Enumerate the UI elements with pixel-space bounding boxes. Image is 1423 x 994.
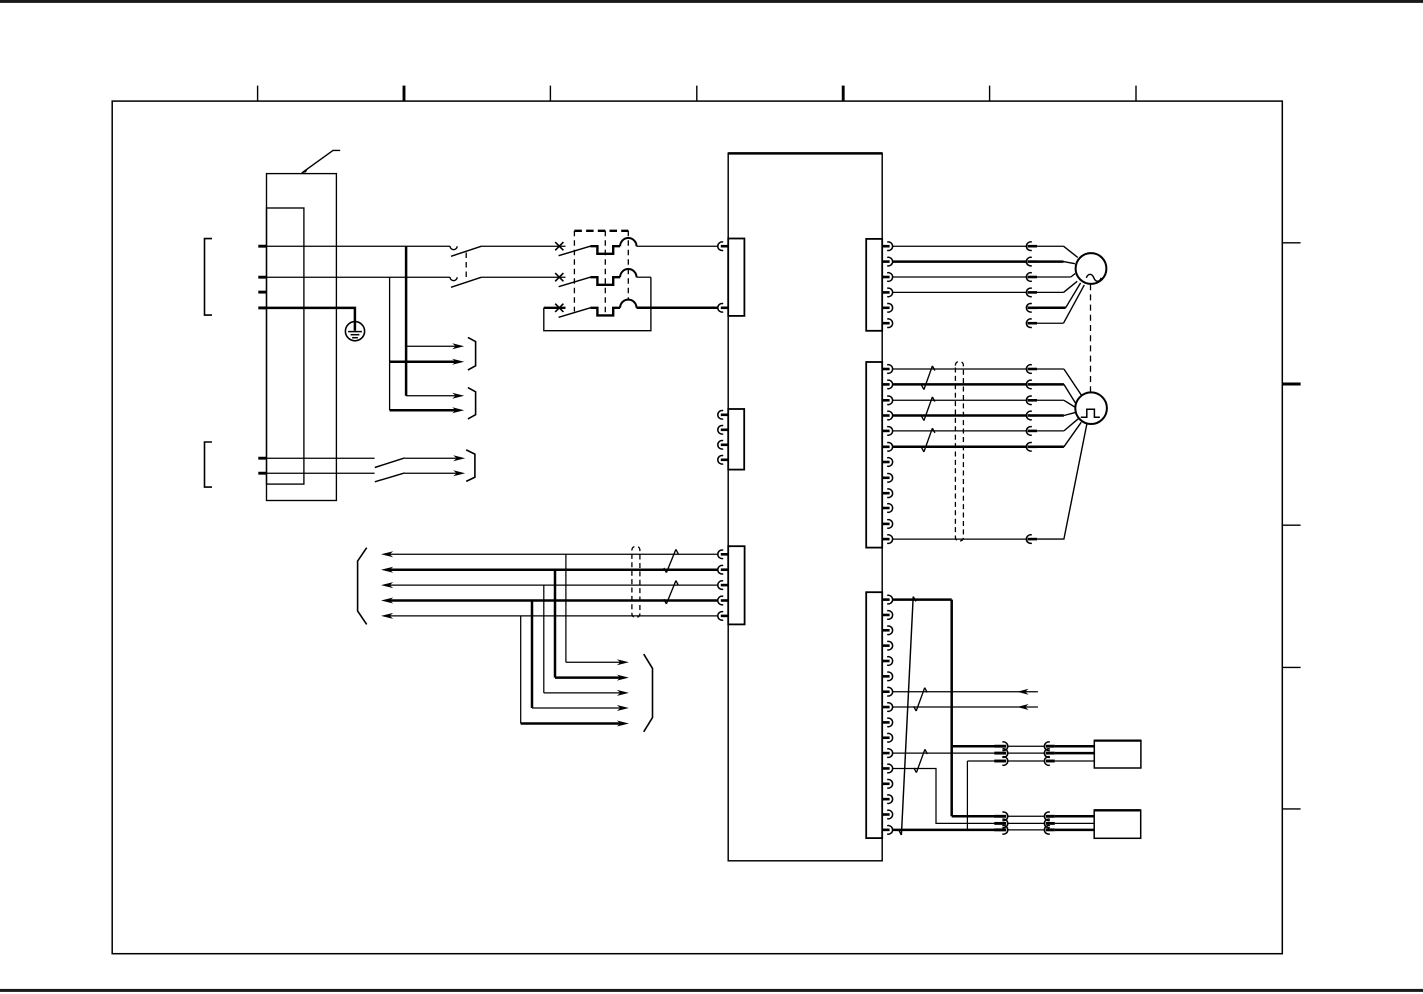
PH1 supply wire xyxy=(952,745,995,748)
wire PE from TB1 xyxy=(262,308,355,331)
arrowhead D4 xyxy=(617,705,629,711)
arrow wire D5 xyxy=(521,722,621,725)
top scale tick 1 xyxy=(257,86,259,102)
PH2 wire to sensor 3 xyxy=(1055,829,1094,832)
PH2 jumper 2 xyxy=(1008,822,1045,824)
CN6 pin7 arrowhead xyxy=(1017,689,1028,695)
arrowhead D1 xyxy=(617,659,629,665)
switch SW1 pole2 contact xyxy=(450,277,457,281)
CN6 pin 14 xyxy=(882,798,889,801)
CN4 pin 3 xyxy=(882,276,889,279)
switch SW1 pole1 contact xyxy=(450,246,457,250)
M2 wire 4 to motor xyxy=(1064,413,1075,416)
M2 wire 4 from CN5 xyxy=(893,414,1027,417)
TB1 terminal stub 2 xyxy=(258,276,267,279)
top scale tick 4 xyxy=(696,86,698,102)
arrow wire D4 xyxy=(532,707,621,709)
CN3 wire-count slash 3-4 xyxy=(666,581,676,604)
arrowhead A1 xyxy=(452,343,464,349)
PH1 jumper 3 xyxy=(1008,760,1045,762)
main PCB board xyxy=(728,153,882,861)
CN4 pin 4 xyxy=(882,291,889,294)
top scale tick 7 xyxy=(1135,86,1137,102)
M2 wire 2 from CN5 xyxy=(893,383,1027,386)
CN6 pin12 wire xyxy=(893,768,1006,823)
connector CN4 xyxy=(866,239,882,331)
switch SW1 gang link xyxy=(465,253,467,282)
arrowhead S2 xyxy=(453,470,465,476)
PH1 ground wire xyxy=(967,760,994,762)
M2 wire 1 connector hook xyxy=(1026,365,1031,374)
M2 wire 4 lead xyxy=(1037,414,1064,417)
M2 common wire hook xyxy=(1026,535,1031,544)
PH2 wire to sensor 1 xyxy=(1055,815,1094,818)
AC motor M1 xyxy=(1076,253,1107,284)
M2 wire 2 connector hook xyxy=(1026,380,1031,389)
TB1 terminal stub 6 xyxy=(258,472,267,475)
CN6 pin 11 xyxy=(882,752,889,755)
CN5 pin 3 xyxy=(882,399,889,402)
switch S2 blade1 xyxy=(375,458,405,468)
CN2 pin 4 xyxy=(721,458,728,461)
M2 wire 6 from CN5 xyxy=(893,446,1027,449)
TB1 terminal stub 1 xyxy=(258,245,267,248)
arrowhead A3 xyxy=(452,393,464,399)
CN6 wire-count slash 11-12 xyxy=(916,749,925,772)
PH1 jumper 2 xyxy=(1008,752,1045,754)
CN3 harness arrowhead 5 xyxy=(381,613,393,619)
wire L2 from TB1 xyxy=(262,276,450,278)
CN3 harness wire 3 xyxy=(389,584,718,586)
CN5 bundle tie xyxy=(955,362,963,541)
M1 wire 1 from CN4 xyxy=(893,245,1027,247)
M2 wire 1 lead xyxy=(1037,368,1064,370)
CN3 pin 2 xyxy=(721,568,728,571)
CN3 harness arrowhead 1 xyxy=(381,551,393,557)
tap vertical from L2 xyxy=(389,277,391,410)
switch SW1 pole1 blade xyxy=(451,246,482,256)
TB1 terminal stub 4 xyxy=(258,306,267,309)
M1 wire 5 lead xyxy=(1037,307,1066,310)
arrowhead D2 xyxy=(617,675,629,681)
switch SW1 pole2 blade xyxy=(451,277,482,287)
CN3 tap vertical 5 xyxy=(520,616,522,724)
PH1 joint left 3 xyxy=(994,760,1006,763)
PH2 joint right 1 xyxy=(1044,812,1049,821)
top scale tick 2 xyxy=(403,86,406,102)
PH1 wire to sensor 2 xyxy=(1055,752,1095,755)
wire S1 from TB1 xyxy=(262,457,375,459)
AC input bracket xyxy=(205,239,213,316)
M2 wire 5 lead xyxy=(1037,430,1064,432)
CN3 pin 5 xyxy=(721,615,728,618)
M2 wire 4 connector hook xyxy=(1026,411,1031,420)
PH2 joint right 2 xyxy=(1044,819,1049,828)
breaker F1 notch xyxy=(590,246,620,254)
top scale tick 6 xyxy=(989,86,991,102)
CN5 pin 12 xyxy=(882,538,889,541)
right scale tick 1 xyxy=(1282,242,1300,244)
protective earth circle xyxy=(345,322,364,341)
CN6 pin7 wire xyxy=(893,691,1038,693)
CN4 pin 6 xyxy=(882,322,889,325)
CN3 harness wire 1 xyxy=(389,553,718,555)
CN3 tap vertical 3 xyxy=(543,585,545,693)
PH2 joint right 3 xyxy=(1044,826,1049,835)
CN3 harness wire 4 xyxy=(389,599,718,602)
connector CN2 xyxy=(728,409,744,470)
CN5 pin 11 xyxy=(882,523,889,526)
M2 wire 1 to motor xyxy=(1064,369,1081,395)
CN4 pin 2 xyxy=(882,260,889,263)
wire F3 to CN1 pin2 xyxy=(637,307,718,310)
sensor PH2 xyxy=(1094,810,1141,838)
breaker F1 blade xyxy=(559,246,591,256)
PH1 joint left 2 xyxy=(994,752,1006,755)
CN5 wire-count slash 1-2 xyxy=(924,366,933,390)
sensor ground link vertical xyxy=(966,761,968,830)
wire S2 from TB1 xyxy=(262,472,375,474)
M1 wire 1 connector hook xyxy=(1026,242,1031,251)
M2 wire 3 to motor xyxy=(1064,400,1076,407)
M2 pulse symbol xyxy=(1081,409,1100,417)
CN3 tap vertical 2 xyxy=(554,570,557,678)
M1 wire 1 lead xyxy=(1037,245,1064,247)
PH1 wire to sensor 1 xyxy=(1055,745,1095,748)
M2 wire 5 to motor xyxy=(1064,419,1078,431)
connector CN1 xyxy=(728,239,744,316)
TB1 terminal stub 3 xyxy=(258,291,267,294)
CN5 pin 6 xyxy=(882,445,889,448)
M1 wire 1 to motor xyxy=(1064,246,1078,257)
CN5 pin 5 xyxy=(882,430,889,433)
CN6 pin 4 xyxy=(882,644,889,647)
arrow wire A4 xyxy=(390,409,456,412)
CN6 pin8 wire xyxy=(893,706,1038,708)
CN4 pin 1 xyxy=(882,245,889,248)
arrowhead D3 xyxy=(617,690,629,696)
arrow wire D2 xyxy=(555,676,621,679)
CN6 pin11 wire xyxy=(893,752,1006,754)
stepper motor M2 xyxy=(1075,392,1107,424)
CN1 pin 1 xyxy=(721,245,728,248)
breaker F1 bump xyxy=(620,238,636,246)
CN5 pin 7 xyxy=(882,461,889,464)
CN6 pin 6 xyxy=(882,675,889,678)
drawing frame xyxy=(112,101,1282,954)
CN5 pin 9 xyxy=(882,492,889,495)
wire into F3 xyxy=(544,307,566,309)
wire F2-F3 loop xyxy=(544,277,651,331)
M2 wire 6 connector hook xyxy=(1026,443,1031,452)
CN6 pin 13 xyxy=(882,782,889,785)
right scale tick 2 xyxy=(1282,383,1300,386)
arrow wire S1 xyxy=(405,457,457,459)
top scale tick 5 xyxy=(842,86,845,102)
breaker F2 bump xyxy=(620,269,636,277)
M1 wire 4 connector hook xyxy=(1026,288,1031,297)
CN3 harness arrowhead 3 xyxy=(381,582,393,588)
arrow wire D3 xyxy=(544,692,621,694)
main PCB top edge xyxy=(728,152,882,155)
right scale tick 4 xyxy=(1282,666,1300,668)
M1 wire 6 lead xyxy=(1037,322,1064,324)
M1 wire 2 connector hook xyxy=(1026,257,1031,266)
wire L1 to fuse xyxy=(482,245,566,247)
CN6 pin 5 xyxy=(882,660,889,663)
CN3 pin 3 xyxy=(721,584,728,587)
CN3 harness wire 5 xyxy=(389,615,718,617)
connector CN6 xyxy=(866,592,882,838)
CN6 wire-count slash 7-8 xyxy=(916,688,925,711)
M2 wire 6 lead xyxy=(1037,446,1064,449)
M1 wire 3 to motor xyxy=(1071,274,1075,278)
M2 wire 2 to motor xyxy=(1064,384,1076,403)
M1 wire 2 from CN4 xyxy=(893,260,1027,263)
CN5 pin 10 xyxy=(882,507,889,510)
arrow wire S2 xyxy=(405,472,457,474)
arrow wire A3 xyxy=(406,395,456,397)
tap vertical from L1 xyxy=(405,246,408,396)
breaker F3 bump xyxy=(620,300,636,308)
arrow wire A2 xyxy=(390,361,456,364)
M1 wire 4 to motor xyxy=(1064,281,1078,292)
PH1 joint left 1 xyxy=(994,745,1006,748)
breaker F2 notch xyxy=(590,277,620,285)
breaker F1 contact X xyxy=(555,242,563,250)
breaker enclosure left xyxy=(573,231,575,312)
TB1 terminal stub 5 xyxy=(258,457,267,460)
M1-M2 dashed link xyxy=(1090,284,1092,392)
M1 AC symbol xyxy=(1086,274,1101,281)
top scale tick 3 xyxy=(549,86,551,102)
breaker F3 notch xyxy=(590,308,620,316)
bracket group D xyxy=(644,654,653,732)
CN6 pin16 wire xyxy=(893,829,1006,832)
CN2 pin 2 xyxy=(721,428,728,431)
CN6 pin 3 xyxy=(882,629,889,632)
M1 wire 2 lead xyxy=(1037,260,1064,263)
CN6 pin 9 xyxy=(882,721,889,724)
PH1 wire to sensor 3 xyxy=(1055,760,1095,762)
secondary bracket xyxy=(205,442,213,487)
switch S2 blade2 xyxy=(375,473,405,482)
M2 wire 3 connector hook xyxy=(1026,396,1031,405)
M2 wire 6 to motor xyxy=(1064,422,1081,447)
CN2 pin 1 xyxy=(721,413,728,416)
breaker F2 blade xyxy=(559,277,591,287)
CN3 harness arrowhead 2 xyxy=(381,567,393,573)
CN6 pin 15 xyxy=(882,813,889,816)
arrowhead A2 xyxy=(452,359,464,365)
M2 wire 1 from CN5 xyxy=(893,368,1027,370)
right scale tick 5 xyxy=(1282,808,1300,810)
wire L1 from TB1 xyxy=(262,245,450,247)
M1 wire 2 to motor xyxy=(1064,262,1075,264)
CN6 pin 1 xyxy=(882,598,889,601)
PH2 jumper 1 xyxy=(1008,815,1045,817)
wire L2 to fuse xyxy=(482,276,566,278)
M1 wire 4 lead xyxy=(1037,291,1064,293)
CN6 pin 8 xyxy=(882,706,889,709)
connector CN3 xyxy=(728,546,744,624)
M2 wire 5 from CN5 xyxy=(893,430,1027,432)
M1 wire 3 from CN4 xyxy=(893,276,1027,278)
arrowhead A4 xyxy=(452,407,464,413)
bracket group A xyxy=(468,337,476,370)
M2 wire 5 connector hook xyxy=(1026,427,1031,436)
CN3 harness wire 2 xyxy=(389,568,718,571)
CN1 pin 2 xyxy=(721,306,728,309)
PH2 wire to sensor 2 xyxy=(1055,822,1094,824)
arrowhead D5 xyxy=(617,721,629,727)
M2 wire 3 from CN5 xyxy=(893,399,1027,401)
PH2 joint left 3 xyxy=(994,828,1006,831)
wire F1 to CN1 pin1 xyxy=(637,245,718,247)
terminal block TB1 outer xyxy=(267,174,337,501)
PH2 joint left 2 xyxy=(994,822,1006,825)
M2 common wire from CN5 pin12 xyxy=(893,538,1027,540)
bottom border bar xyxy=(0,989,1423,992)
M1 wire 5 to motor xyxy=(1066,283,1081,308)
CN5 pin 4 xyxy=(882,414,889,417)
CN6 pin 2 xyxy=(882,614,889,617)
sensor PH1 xyxy=(1094,740,1141,768)
M1 wire 3 lead xyxy=(1037,276,1071,278)
sensor supply wire from CN6 pin1 xyxy=(893,598,952,601)
CN6 pin 10 xyxy=(882,736,889,739)
CN5 pin 8 xyxy=(882,476,889,479)
terminal block TB1 inner xyxy=(267,208,304,484)
M1 wire 3 connector hook xyxy=(1026,273,1031,282)
M2 common wire to motor xyxy=(1037,424,1087,539)
CN3 tap vertical 4 xyxy=(531,601,534,709)
breaker F3 contact X xyxy=(555,304,563,312)
CN6 pin 16 xyxy=(882,829,889,832)
bracket group C xyxy=(466,450,475,482)
breaker F2 contact X xyxy=(555,273,563,281)
CN5 pin 2 xyxy=(882,383,889,386)
TB1 leader arrowhead xyxy=(301,167,308,173)
CN6 pin 7 xyxy=(882,690,889,693)
PH2 jumper 3 xyxy=(1008,829,1045,831)
breaker enclosure middle xyxy=(604,231,606,315)
CN4 pin 5 xyxy=(882,306,889,309)
arrow wire D1 xyxy=(566,661,621,663)
arrow wire A1 xyxy=(406,345,456,347)
protective earth bars xyxy=(348,331,362,333)
connector CN5 xyxy=(866,362,882,548)
PH1 joint right 1 xyxy=(1044,742,1049,751)
breaker enclosure top xyxy=(574,230,628,232)
CN3 pin 1 xyxy=(721,553,728,556)
CN3 harness bundle tie xyxy=(632,546,640,617)
CN3 tap vertical 1 xyxy=(565,554,567,662)
top border bar xyxy=(0,0,1423,3)
CN3 harness arrowhead 4 xyxy=(381,598,393,604)
CN6 pin 12 xyxy=(882,767,889,770)
CN2 pin 3 xyxy=(721,443,728,446)
M1 wire 6 to motor xyxy=(1064,285,1085,323)
M1 wire 6 connector hook xyxy=(1026,319,1031,328)
CN3 wire-count slash 1-2 xyxy=(666,549,676,572)
CN6 pin8 arrowhead xyxy=(1017,704,1028,710)
CN3 pin 4 xyxy=(721,599,728,602)
CN5 wire-count slash 5-6 xyxy=(924,428,933,452)
sensor supply vertical xyxy=(950,600,953,817)
PH1 joint right 3 xyxy=(1044,757,1049,766)
wire F2 out xyxy=(637,276,651,278)
PH1 jumper 1 xyxy=(1008,745,1045,747)
PH2 supply corner xyxy=(952,815,995,818)
bracket group B xyxy=(468,388,476,419)
CN5 pin 1 xyxy=(882,368,889,371)
CN6 cable slash xyxy=(901,597,913,835)
M1 wire 5 connector hook xyxy=(1026,304,1031,313)
PH2 joint left 1 xyxy=(994,815,1006,818)
right scale tick 3 xyxy=(1282,524,1300,526)
M2 wire 3 lead xyxy=(1037,399,1064,401)
arrowhead S1 xyxy=(453,455,465,461)
sensor PH2 top edge xyxy=(1094,809,1141,811)
harness bracket left xyxy=(358,548,367,625)
breaker enclosure right xyxy=(627,231,629,299)
CN5 wire-count slash 3-4 xyxy=(924,397,933,421)
breaker F3 blade xyxy=(559,308,591,318)
TB1 leader line xyxy=(302,150,340,173)
M2 wire 2 lead xyxy=(1037,383,1064,386)
M1 wire 4 from CN4 xyxy=(893,291,1027,293)
PH1 joint right 2 xyxy=(1044,749,1049,758)
sensor PH1 top edge xyxy=(1094,739,1141,741)
